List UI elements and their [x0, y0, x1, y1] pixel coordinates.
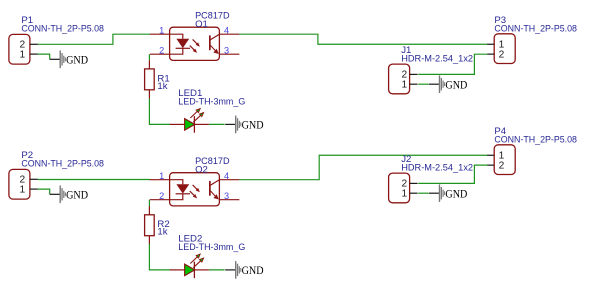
O1 pin 4 [219, 33, 239, 35]
P1 pin 1 [30, 53, 38, 55]
connector J2 (HDR-M-2.54_1x2) [389, 154, 474, 203]
wire O1 pin4 to P3 pin1 [239, 34, 487, 44]
svg-text:GND: GND [242, 118, 264, 132]
connector P4 (CONN-TH_2P-P5.08) [487, 126, 577, 175]
svg-text:HDR-M-2.54_1x2: HDR-M-2.54_1x2 [401, 162, 473, 173]
O1 phototransistor [209, 35, 211, 50]
P4 pin 1 [487, 154, 494, 156]
svg-text:CONN-TH_2P-P5.08: CONN-TH_2P-P5.08 [494, 23, 577, 34]
R1 bottom lead [148, 90, 150, 99]
svg-text:2: 2 [499, 49, 505, 60]
P3 pin 2 [487, 53, 494, 55]
ground at P1 pin 1 [50, 51, 89, 69]
wire P2 pin2 to O2 pin1 [38, 179, 150, 181]
resistor R2 1k [145, 206, 170, 244]
svg-text:O1: O1 [195, 19, 208, 30]
P2 body [9, 169, 30, 199]
svg-text:1: 1 [401, 188, 407, 199]
P4 body [494, 145, 515, 175]
ground bars [439, 184, 440, 202]
wire O2 pin2 to R2 [148, 200, 150, 206]
svg-text:4: 4 [224, 25, 229, 35]
svg-text:2: 2 [159, 191, 164, 201]
svg-text:4: 4 [224, 171, 229, 181]
svg-text:HDR-M-2.54_1x2: HDR-M-2.54_1x2 [401, 53, 473, 64]
wire R2 to LED2 [149, 244, 170, 270]
P4 pin 2 [487, 164, 494, 166]
optocoupler O2 PC817D [150, 156, 240, 206]
O1 pin 1 [150, 33, 170, 35]
svg-text:1: 1 [401, 79, 407, 90]
wire R1 to LED1 [149, 99, 170, 125]
J2 body [389, 173, 410, 203]
svg-text:GND: GND [66, 52, 88, 66]
LED2 cathode bar [193, 262, 195, 279]
svg-text:CONN-TH_2P-P5.08: CONN-TH_2P-P5.08 [21, 158, 104, 169]
ground at J2 pin 1 [429, 184, 468, 202]
svg-text:CONN-TH_2P-P5.08: CONN-TH_2P-P5.08 [21, 23, 104, 34]
ground bars [439, 75, 440, 93]
wire P2 pin1 to GND [38, 189, 50, 194]
ground at J1 pin 1 [429, 75, 468, 93]
LED LED2 LED-TH-3mm_G [170, 234, 246, 279]
svg-text:GND: GND [242, 263, 264, 277]
ground lead [50, 58, 61, 60]
O2 body [170, 173, 220, 206]
wire LED2 to GND [209, 269, 225, 271]
LED2 cathode lead [194, 269, 209, 271]
connector P1 (CONN-TH_2P-P5.08) [9, 15, 104, 64]
O1 pin 3 [219, 53, 239, 55]
LED2 light arrows [190, 257, 197, 264]
svg-text:3: 3 [224, 191, 229, 201]
LED2 triangle [185, 264, 195, 276]
wire LED1 to GND [209, 123, 225, 125]
LED1 cathode lead [194, 123, 209, 125]
J2 pin 1 [410, 192, 418, 194]
wire J1 pin1 to GND [418, 83, 429, 85]
svg-text:1k: 1k [157, 226, 167, 237]
ground at LED1 [225, 116, 264, 134]
R1 body [145, 69, 155, 90]
O1 pin 2 [150, 53, 170, 55]
svg-text:LED-TH-3mm_G: LED-TH-3mm_G [178, 242, 245, 253]
resistor R1 1k [145, 60, 170, 98]
O1 light arrows [193, 39, 198, 44]
P3 body [494, 34, 515, 64]
J1 body [389, 64, 410, 94]
O2 light arrows [193, 185, 198, 190]
R2 body [145, 215, 155, 236]
wire P4 pin2 to J2 pin2 [418, 165, 487, 183]
P2 pin 2 [30, 178, 38, 180]
svg-text:1: 1 [159, 25, 164, 35]
LED LED1 LED-TH-3mm_G [170, 88, 246, 133]
P1 pin 2 [30, 43, 38, 45]
svg-text:LED-TH-3mm_G: LED-TH-3mm_G [178, 97, 245, 108]
svg-text:1: 1 [19, 49, 25, 60]
svg-text:1: 1 [19, 184, 25, 195]
ground at LED2 [225, 261, 264, 279]
connector P2 (CONN-TH_2P-P5.08) [9, 150, 104, 199]
O2 pin 2 [150, 199, 170, 201]
ground bars [60, 51, 61, 69]
R2 bottom lead [148, 236, 150, 245]
P1 body [9, 34, 30, 64]
ground lead [429, 192, 440, 194]
R2 top lead [148, 206, 150, 215]
svg-text:2: 2 [159, 45, 164, 55]
LED1 cathode bar [193, 116, 195, 133]
ground lead [50, 193, 61, 195]
LED1 triangle [185, 119, 195, 131]
svg-text:GND: GND [445, 186, 467, 200]
wire J2 pin1 to GND [418, 192, 429, 194]
wire P1 pin1 to GND [38, 54, 50, 59]
O2 pin 3 [219, 199, 239, 201]
O1 internal LED [170, 34, 183, 39]
O2 pin 4 [219, 179, 239, 181]
svg-text:1: 1 [159, 171, 164, 181]
ground bars [235, 116, 236, 134]
ground bars [235, 261, 236, 279]
svg-text:GND: GND [66, 187, 88, 201]
svg-text:3: 3 [224, 45, 229, 55]
LED1 light arrows [190, 111, 197, 118]
connector P3 (CONN-TH_2P-P5.08) [487, 15, 577, 64]
ground bars [60, 186, 61, 204]
ground lead [429, 83, 440, 85]
optocoupler O1 PC817D [150, 10, 240, 60]
P3 pin 1 [487, 43, 494, 45]
ground lead [225, 123, 236, 125]
J1 pin 2 [410, 73, 418, 75]
ground at P2 pin 1 [50, 186, 89, 204]
O1 body [170, 27, 220, 60]
svg-text:O2: O2 [195, 164, 208, 175]
wire O1 pin2 to R1 [148, 54, 150, 60]
J1 pin 1 [410, 83, 418, 85]
O2 pin 1 [150, 179, 170, 181]
R1 top lead [148, 60, 150, 69]
wire P1 pin2 to O1 pin1 [38, 34, 150, 44]
svg-text:2: 2 [499, 160, 505, 171]
P2 pin 1 [30, 188, 38, 190]
svg-text:1k: 1k [157, 81, 167, 92]
O2 internal LED [170, 180, 183, 185]
connector J1 (HDR-M-2.54_1x2) [389, 45, 474, 94]
O2 phototransistor [209, 181, 211, 196]
LED2 anode lead [170, 269, 185, 271]
ground lead [225, 269, 236, 271]
svg-text:GND: GND [445, 77, 467, 91]
wire O2 pin4 to P4 pin1 [239, 155, 487, 179]
J2 pin 2 [410, 182, 418, 184]
svg-text:CONN-TH_2P-P5.08: CONN-TH_2P-P5.08 [494, 134, 577, 145]
wire P3 pin2 to J1 pin2 [418, 54, 487, 74]
LED1 anode lead [170, 123, 185, 125]
